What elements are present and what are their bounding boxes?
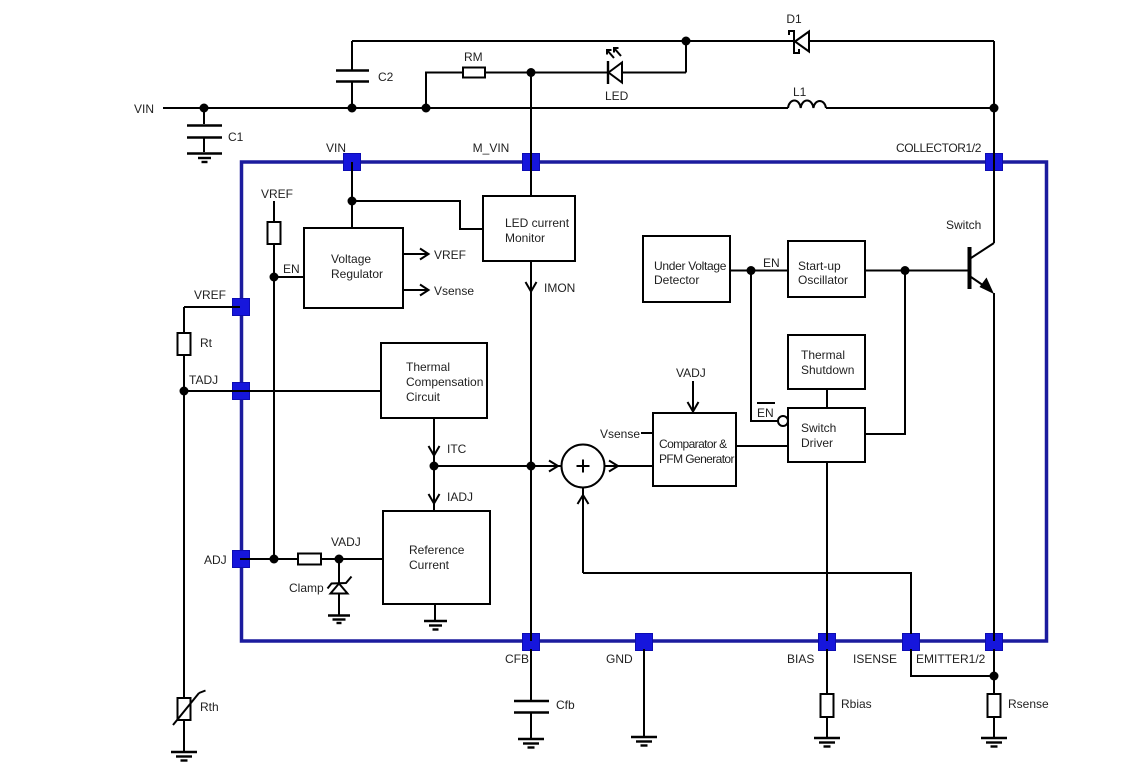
junction EN net — [747, 256, 780, 275]
diode D1 (schottky) — [786, 12, 809, 53]
wire RM to M_VIN node — [485, 72, 531, 74]
ground Reference Current — [424, 621, 447, 630]
ground Rsense — [981, 738, 1007, 747]
wire EN net down to driver — [751, 271, 778, 422]
node Vsense input — [600, 427, 653, 441]
wire BIAS rail — [826, 462, 828, 641]
wire BIAS pin down — [826, 649, 828, 694]
svg-text:EN: EN — [763, 256, 780, 270]
wire summing output — [605, 465, 654, 467]
node VADJ input arrow — [676, 366, 706, 413]
svg-text:VREF: VREF — [261, 187, 293, 201]
svg-text:C2: C2 — [378, 70, 394, 84]
summing junction — [562, 445, 605, 488]
svg-text:EN: EN — [283, 262, 300, 276]
svg-text:Rbias: Rbias — [841, 697, 872, 711]
wire base net down to driver output — [865, 271, 905, 435]
junction ISENSE/emitter — [990, 672, 999, 681]
wire into summing junction — [531, 465, 562, 467]
wire RM left leg — [426, 73, 463, 109]
svg-text:Vsense: Vsense — [600, 427, 640, 441]
block Under Voltage Detector — [643, 236, 730, 302]
block Reference Current — [383, 511, 490, 604]
resistor Rsense — [988, 694, 1050, 717]
svg-text:Cfb: Cfb — [556, 698, 575, 712]
wire ADJ row right — [321, 558, 383, 560]
junction IMON/ITC rail — [527, 462, 536, 471]
pin COLLECTOR1/2 — [896, 141, 1003, 171]
svg-text:VADJ: VADJ — [676, 366, 706, 380]
svg-text:GND: GND — [606, 652, 633, 666]
arrow into summing junction — [549, 461, 558, 472]
pin EMITTER1/2 — [916, 634, 1003, 667]
svg-text:VIN: VIN — [134, 102, 154, 116]
resistor VREF-EN pullup — [268, 222, 281, 244]
junction RM branch/VIN — [422, 104, 431, 113]
svg-text:LED: LED — [605, 89, 629, 103]
svg-text:EMITTER1/2: EMITTER1/2 — [916, 652, 986, 666]
svg-text:C1: C1 — [228, 130, 244, 144]
pin ADJ — [204, 551, 250, 568]
svg-text:Detector: Detector — [654, 273, 699, 287]
diode Clamp (zener) — [289, 559, 352, 615]
svg-text:Switch: Switch — [946, 218, 981, 232]
Vsense output arrow — [403, 284, 474, 298]
svg-text:L1: L1 — [793, 85, 807, 99]
wire Rth to ground — [183, 720, 185, 752]
svg-text:BIAS: BIAS — [787, 652, 814, 666]
block Thermal Compensation Circuit — [381, 343, 487, 418]
pin VREF — [194, 288, 250, 316]
pin TADJ — [189, 373, 250, 400]
resistor Rbias — [821, 694, 872, 717]
wire EN to regulator — [274, 276, 304, 278]
svg-text:Under Voltage: Under Voltage — [654, 259, 727, 273]
wire left rail upper — [183, 307, 185, 333]
svg-text:Driver: Driver — [801, 436, 833, 450]
wire feedback path from ISENSE — [583, 573, 911, 634]
wire top rail from C2 to D1 — [352, 40, 794, 42]
thermistor Rth — [173, 691, 219, 726]
wire top rail D1 to collector rail — [809, 40, 994, 42]
ground Rbias — [814, 738, 840, 747]
VREF output arrow — [403, 248, 466, 262]
svg-text:COLLECTOR1/2: COLLECTOR1/2 — [896, 141, 982, 155]
block Switch Driver — [788, 408, 865, 462]
wire CFB pin down — [530, 649, 532, 700]
pin CFB — [505, 634, 540, 667]
svg-text:Rsense: Rsense — [1008, 697, 1049, 711]
pin BIAS — [787, 634, 836, 667]
svg-text:VADJ: VADJ — [331, 535, 361, 549]
inverter bubble on Switch Driver — [778, 416, 788, 426]
resistor RM — [463, 50, 485, 78]
wire ADJ row left — [240, 558, 298, 560]
svg-text:CFB: CFB — [505, 652, 529, 666]
wire VIN node to LED current monitor — [352, 201, 483, 229]
ground Cfb — [518, 739, 544, 748]
pin VIN — [326, 141, 361, 171]
wire GND pin down — [643, 649, 645, 737]
wire IMON rail — [530, 261, 532, 641]
junction TADJ/left rail — [180, 387, 189, 396]
node VADJ — [331, 535, 361, 564]
svg-text:Shutdown: Shutdown — [801, 363, 854, 377]
node VREF stub (internal) — [261, 187, 293, 222]
junction EN rail/ADJ — [270, 555, 279, 564]
wire Reference Current to ground — [434, 604, 436, 621]
ITC arrow — [429, 442, 467, 456]
ground C1 — [187, 154, 222, 163]
junction EN node — [270, 262, 300, 282]
pin ISENSE — [853, 634, 920, 667]
wire TCC to ITC node — [433, 418, 435, 466]
wire VIN main rail — [163, 107, 788, 109]
block Thermal Shutdown — [788, 335, 865, 389]
arrow feedback up — [578, 495, 589, 504]
svg-text:Voltage: Voltage — [331, 252, 371, 266]
svg-text:ADJ: ADJ — [204, 553, 227, 567]
LED emission arrows — [607, 48, 621, 58]
ground Clamp — [328, 616, 350, 624]
resistor (ADJ series) — [298, 554, 321, 565]
svg-text:Rt: Rt — [200, 336, 213, 350]
svg-text:IADJ: IADJ — [447, 490, 473, 504]
wire LED branch up to top rail — [685, 41, 687, 73]
op-amp U1 Voltage Regulator box — [304, 228, 403, 308]
wire ISENSE pin jog to Rsense — [911, 649, 994, 676]
ground Rth — [171, 752, 197, 761]
junction base net — [901, 266, 910, 275]
svg-text:ITC: ITC — [447, 442, 467, 456]
svg-text:RM: RM — [464, 50, 483, 64]
svg-text:ISENSE: ISENSE — [853, 652, 897, 666]
wire Rbias to ground — [826, 717, 828, 738]
diode LED — [605, 61, 686, 103]
block LED current Monitor — [483, 196, 575, 261]
svg-text:D1: D1 — [786, 12, 802, 26]
svg-text:Vsense: Vsense — [434, 284, 474, 298]
svg-text:PFM Generator: PFM Generator — [659, 452, 734, 466]
svg-text:VREF: VREF — [434, 248, 466, 262]
junction L1/collector rail — [990, 104, 999, 113]
pin M_VIN — [473, 141, 540, 171]
wire EN rail vertical — [273, 244, 275, 559]
svg-text:Switch: Switch — [801, 421, 836, 435]
svg-text:Thermal: Thermal — [406, 360, 450, 374]
wire ITC node to summing rail — [434, 465, 531, 467]
wire M_VIN rail down into IC — [530, 73, 532, 197]
wire UVD to oscillator (EN net) — [730, 270, 788, 272]
capacitor Cfb — [514, 698, 575, 739]
inductor L1 — [788, 85, 826, 108]
svg-text:Monitor: Monitor — [505, 231, 545, 245]
svg-text:LED current: LED current — [505, 216, 570, 230]
junction C2/VIN — [348, 104, 357, 113]
svg-text:Clamp: Clamp — [289, 581, 324, 595]
wire thermal shutdown to driver — [826, 389, 828, 408]
wire IADJ down — [433, 466, 435, 511]
svg-text:Thermal: Thermal — [801, 348, 845, 362]
svg-text:Rth: Rth — [200, 700, 219, 714]
block Comparator and PFM Generator — [653, 413, 736, 486]
pin GND — [606, 634, 653, 667]
wire VIN pin down — [351, 162, 353, 228]
capacitor C1 — [187, 108, 244, 152]
svg-text:Regulator: Regulator — [331, 267, 383, 281]
wire left rail middle — [183, 355, 185, 698]
svg-text:Compensation: Compensation — [406, 375, 483, 389]
block Start-up Oscillator — [788, 241, 865, 297]
wire comparator to driver — [736, 445, 788, 447]
wire collector rail top — [993, 41, 995, 243]
wire VREF pin to left rail — [184, 306, 240, 308]
IMON arrow — [526, 281, 576, 295]
svg-text:VIN: VIN — [326, 141, 346, 155]
svg-text:Oscillator: Oscillator — [798, 273, 848, 287]
wire VIN rail right of L1 — [826, 107, 994, 109]
capacitor C2 — [336, 41, 394, 108]
junction LED branch/top rail — [682, 37, 691, 46]
wire oscillator to switch base — [865, 270, 968, 272]
wire Rsense to ground — [993, 717, 995, 738]
junction ITC node — [430, 462, 439, 471]
wire EMITTER pin down — [993, 649, 995, 694]
node EN-bar label — [757, 403, 775, 420]
svg-text:Comparator &: Comparator & — [659, 437, 727, 451]
wire emitter rail — [993, 293, 995, 641]
resistor Rt — [178, 333, 213, 355]
svg-text:M_VIN: M_VIN — [473, 141, 510, 155]
wire node to LED anode — [531, 72, 607, 74]
junction RM/LED/M_VIN — [527, 68, 536, 77]
IADJ arrow — [429, 490, 474, 504]
svg-text:Circuit: Circuit — [406, 390, 441, 404]
svg-text:IMON: IMON — [544, 281, 575, 295]
svg-text:VREF: VREF — [194, 288, 226, 302]
svg-text:Start-up: Start-up — [798, 259, 841, 273]
wire feedback into summing bottom — [582, 488, 584, 574]
transistor Q1 Switch — [946, 218, 994, 294]
ground GND — [631, 737, 657, 746]
svg-text:Current: Current — [409, 558, 450, 572]
arrow summing output — [609, 461, 618, 472]
svg-text:TADJ: TADJ — [189, 373, 218, 387]
svg-text:Reference: Reference — [409, 543, 465, 557]
wire TADJ row — [184, 390, 381, 392]
junction VIN internal — [348, 197, 357, 206]
junction C1/VIN — [200, 104, 209, 113]
svg-text:EN: EN — [757, 406, 774, 420]
IC boundary box — [242, 162, 1047, 641]
